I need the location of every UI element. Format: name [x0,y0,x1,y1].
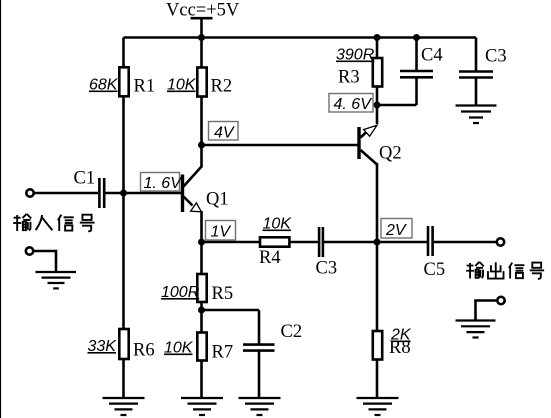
ground output [456,321,496,338]
wire R2 to 4V node [200,96,203,145]
resistor R8 [373,327,412,360]
ground below R8 [357,398,399,415]
svg-text:10K: 10K [167,77,197,94]
output signal text 输出信号 [466,262,544,279]
svg-text:Q2: Q2 [379,144,402,164]
wire C5 to output [434,241,497,244]
svg-text:C1: C1 [74,169,96,189]
resistor R5 [197,274,206,302]
label box 4.6V [329,94,373,114]
resistor R7 [197,333,206,361]
node 4V junction [198,142,205,149]
node 1V junction [198,239,205,246]
svg-text:C5: C5 [424,260,446,280]
resistor R4 [259,216,292,269]
wire 4V node to Q2 base [202,144,358,147]
ground below R7 [181,398,223,415]
ground below C2 [239,398,281,415]
wire rail down to R2 [200,38,203,68]
input terminal [26,189,33,196]
svg-text:1. 6V: 1. 6V [144,175,183,192]
node junction C4 column [413,34,420,41]
svg-text:R6: R6 [133,341,155,361]
ground below C3 top right [456,106,497,124]
resistor R6 [119,329,128,359]
wire 2V node to C5 [377,241,427,244]
label box 1V [206,221,236,241]
wire R7 to ground [200,361,203,398]
wire top rail [124,36,477,39]
label box 1.6V [141,173,183,193]
wire input ground [34,251,57,271]
wire C3 to 2V node [324,241,377,244]
wire output ground [476,301,498,320]
wire 2V node to R8 [376,242,379,330]
resistor R3 [336,38,382,106]
svg-text:R1: R1 [134,77,156,97]
wire C2 to ground [258,351,261,398]
wire R4 to C3 [291,241,319,244]
svg-text:10K: 10K [164,340,194,357]
wire input to C1 [34,192,98,195]
wire rail down to R1 [122,38,125,68]
capacitor C2 [243,310,302,351]
Vcc terminal bar [191,17,213,20]
label box 4V [209,122,239,142]
node junction R5/R7/C2 [198,307,205,314]
svg-text:2V: 2V [385,222,407,239]
svg-text:C2: C2 [281,322,303,342]
capacitor C1 [74,169,105,209]
wire node to R7 [200,310,203,332]
svg-text:10K: 10K [263,216,293,233]
node 2V junction [374,239,381,246]
node junction R3 column [374,34,381,41]
capacitor C4 [400,38,443,106]
resistor R1 [119,67,128,96]
svg-text:Q1: Q1 [206,190,229,210]
capacitor C5 [424,226,446,280]
svg-text:R8: R8 [389,338,411,358]
node junction Vcc/R2 [198,34,205,41]
wire Q1 emitter to 1V node [200,211,203,242]
svg-text:C3: C3 [316,259,338,279]
wire Q2 collector to 2V node [376,163,379,242]
transistor Q2 [359,105,402,165]
wire C1 to Q1 base [105,192,181,195]
resistor R2 [197,68,206,97]
wire 1V node to R4 [202,241,260,244]
wire R8 to ground [376,360,379,398]
svg-text:C3: C3 [485,47,507,67]
output ground terminal [497,297,504,304]
capacitor C3 top right [459,38,507,106]
svg-text:R7: R7 [212,343,234,363]
capacitor C3 coupling [316,227,338,279]
svg-text:4V: 4V [214,125,235,142]
wire 4V node down to Q1 collector [200,145,203,168]
svg-text:68K: 68K [89,77,119,94]
wire Vcc bar to top rail [200,18,203,37]
wire R6 to ground [122,359,125,398]
input signal text 输入信号 [13,214,94,231]
ground input [36,272,77,288]
svg-text:4. 6V: 4. 6V [334,96,373,113]
svg-text:C4: C4 [421,46,443,66]
svg-text:1V: 1V [211,224,232,241]
svg-text:R4: R4 [259,248,281,268]
svg-text:33K: 33K [88,338,118,355]
wire 1V node to R5 [200,242,203,273]
output terminal [497,238,504,245]
svg-text:R3: R3 [338,68,360,88]
wire R5 to node [200,302,203,310]
wire node to C2 [202,309,260,312]
svg-text:100R: 100R [161,284,200,301]
ground below R6 [103,398,145,415]
node 4.6V junction [374,102,381,109]
svg-text:R2: R2 [211,77,233,97]
input ground terminal [26,247,33,254]
node junction C1/R1/R6/base [120,190,127,197]
wire C4 to 4.6V node [377,104,417,107]
svg-text:390R: 390R [336,47,375,64]
label box 2V [381,219,412,240]
svg-text:R5: R5 [212,284,234,304]
wire R1 to R6 [122,96,125,329]
transistor Q1 [183,167,229,213]
